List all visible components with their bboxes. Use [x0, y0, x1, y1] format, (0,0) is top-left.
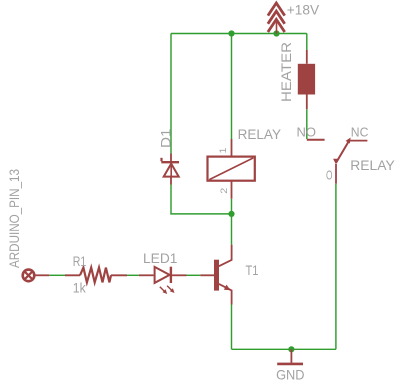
wire coil pin2 to junction	[231, 199, 233, 214]
node junction D1/coil/collector	[228, 211, 234, 217]
LED1 emission arrowheads	[163, 289, 168, 294]
relay coil RELAY	[208, 139, 255, 199]
resistor HEATER	[298, 50, 315, 109]
wire heater bottom to NO	[306, 109, 308, 139]
svg-text:1k: 1k	[73, 280, 87, 296]
relay contact common stub	[335, 164, 337, 184]
wire emitter to bottom rail	[231, 305, 233, 350]
svg-text:R1: R1	[73, 253, 87, 269]
svg-text:O: O	[326, 167, 333, 182]
wire bottom rail	[232, 348, 336, 350]
junction dot GND	[288, 346, 294, 352]
resistor R1	[65, 268, 127, 283]
svg-text:RELAY: RELAY	[238, 126, 282, 142]
wire relay coil column	[231, 34, 233, 140]
wire heater top	[306, 34, 308, 51]
svg-text:D1: D1	[158, 128, 174, 148]
armature pivot arrowhead	[333, 159, 339, 165]
svg-text:1: 1	[218, 148, 229, 154]
ground GND	[277, 349, 303, 364]
svg-text:ARDUINO_PIN_13: ARDUINO_PIN_13	[7, 169, 22, 268]
relay contact armature	[336, 141, 349, 163]
svg-text:NC: NC	[351, 125, 369, 140]
wire top rail	[171, 33, 307, 35]
transistor T1	[200, 245, 231, 305]
wire junction to collector	[231, 214, 233, 245]
diode D1	[161, 154, 179, 185]
LED LED1	[139, 267, 187, 292]
svg-text:2: 2	[219, 188, 230, 194]
svg-text:LED1: LED1	[143, 250, 178, 266]
wire D1 column lower to junction	[171, 185, 232, 214]
wire LED1 to T1 base	[187, 274, 201, 276]
relay contact NC lead	[348, 140, 368, 142]
svg-text:GND: GND	[276, 366, 304, 382]
supply +18V symbol	[268, 3, 285, 34]
pin ARDUINO_PIN_13	[23, 270, 50, 282]
wire R1 to LED1	[127, 274, 139, 276]
junction dot top rail / coil column	[228, 30, 234, 36]
svg-text:+18V: +18V	[287, 2, 320, 18]
wire D1 column upper	[170, 34, 172, 154]
svg-text:HEATER: HEATER	[278, 42, 294, 102]
armature arrowhead at NC	[346, 138, 351, 144]
svg-text:RELAY: RELAY	[350, 157, 395, 173]
wire pin to R1	[49, 274, 65, 276]
junction dot +18V	[273, 30, 279, 36]
relay contact NO lead	[307, 139, 325, 141]
svg-text:NO: NO	[297, 125, 317, 140]
svg-text:T1: T1	[246, 262, 259, 278]
wire relay contact common column	[335, 184, 337, 350]
